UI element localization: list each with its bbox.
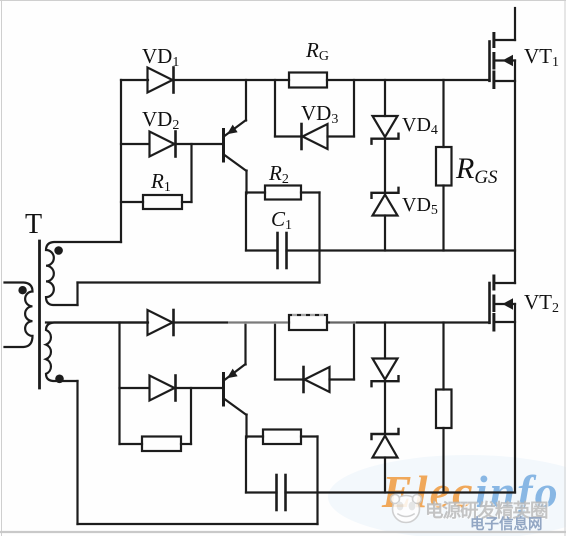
bottom secondary polarity dot: [55, 375, 64, 384]
wire: top secondary upper terminal riser: [120, 80, 122, 242]
wire: RGSb top drop: [442, 323, 444, 390]
capacitor C1: [278, 233, 287, 268]
wire: top source rail C1 to VT1 source: [287, 249, 516, 251]
wire: bottom transformer return: [78, 381, 318, 524]
resistor R1b: [142, 437, 181, 452]
diode VD2: [150, 132, 176, 157]
svg-text:VD1: VD1: [142, 44, 179, 70]
svg-text:VT1: VT1: [524, 44, 559, 70]
wire: VD4 to VD5 link: [384, 139, 386, 193]
transistor Q1 (PNP driver, top): [224, 80, 247, 194]
transformer T core: [38, 241, 41, 388]
zener diode VD4 (cathode down): [372, 116, 399, 144]
resistor RGSb: [436, 390, 452, 429]
resistor R2b: [263, 430, 301, 445]
resistor RG: [289, 73, 327, 88]
wire: top transformer return: [78, 283, 320, 306]
wire: VD3 left tap: [275, 80, 302, 137]
LABEL-LAYER: [25, 38, 559, 316]
wire: VD3 right tap: [328, 80, 355, 137]
wire: VD4 branch upper: [384, 80, 386, 116]
svg-text:RG: RG: [305, 38, 329, 64]
wire: VD4b to VD5b link: [384, 381, 386, 434]
svg-text:VT2: VT2: [524, 290, 559, 316]
wire: VD4b branch upper: [384, 323, 386, 359]
transformer bottom secondary winding: [46, 323, 147, 382]
svg-text:C1: C1: [271, 207, 292, 233]
wire: VD3b right tap: [330, 323, 355, 380]
wire: lower main bus RGb to VT2 gate: [327, 321, 490, 323]
wire: R1b right connection and riser: [181, 388, 191, 444]
wire: C1b left drop: [246, 437, 277, 493]
wire: R2b right drop to bottom return: [316, 437, 318, 525]
wire: VD2b cathode to Q2 base: [176, 387, 223, 389]
resistor R2: [265, 186, 301, 200]
wire: top main bus RG to VT1 gate: [327, 79, 490, 81]
capacitor C1b: [277, 475, 286, 510]
MOSFET VT2: [490, 276, 516, 330]
wire: RGS bottom drop to source rail: [442, 186, 444, 251]
wire: bottom secondary upper terminal to VD1b: [46, 321, 148, 323]
wire: RGS top drop: [442, 80, 444, 147]
svg-text:RGS: RGS: [455, 152, 498, 188]
wire: R2 left connection: [247, 191, 266, 193]
wire: VD3b left tap: [275, 323, 304, 380]
wire: top main bus VD1 to RG: [174, 79, 290, 81]
diode VD1: [148, 68, 174, 93]
wire: VT2 source vertical to bottom rail: [514, 304, 516, 493]
wire: VD2 cathode to Q1 base: [176, 143, 223, 145]
wire: R1 right connection and riser to VD2 row: [182, 144, 192, 202]
wire: VD2b branch: [120, 387, 150, 389]
svg-text:VD2: VD2: [142, 107, 179, 133]
wire: R2b right connection: [301, 435, 318, 437]
wire: lower left tap riser: [118, 323, 120, 445]
wire: VD5 anode to source rail: [384, 216, 386, 251]
zener diode VD5b (cathode up): [372, 429, 399, 458]
diode VD2b: [150, 376, 176, 401]
wire: lower main bus VD1b to RGb: [174, 321, 290, 323]
svg-text:电子信息网: 电子信息网: [470, 515, 543, 533]
transformer T primary winding: [5, 283, 33, 348]
diode VD1b (lower channel, inline): [148, 310, 174, 335]
transformer top secondary winding: [46, 242, 121, 305]
WATERMARK-LAYER: [328, 455, 566, 536]
wire: R1b left connection: [120, 443, 143, 445]
wire: VD5b anode to bottom rail: [384, 458, 386, 493]
svg-text:T: T: [25, 209, 42, 240]
resistor R1: [143, 195, 182, 209]
wire: VD2 branch from left riser: [121, 143, 149, 145]
svg-text:VD5: VD5: [402, 194, 438, 218]
svg-text:VD4: VD4: [402, 114, 438, 138]
wire: RGSb bottom drop: [442, 428, 444, 493]
svg-text:VD3: VD3: [301, 101, 338, 127]
svg-text:R1: R1: [150, 169, 171, 195]
zener diode VD5 (cathode up): [372, 188, 399, 216]
zener diode VD4b (cathode down): [372, 359, 399, 387]
wire: bottom source rail C1b to VT2 source: [286, 491, 516, 493]
wire: R2 right connection: [301, 191, 320, 193]
transistor Q2 (PNP driver, bottom): [224, 323, 247, 438]
wire: R2 right drop to transformer return: [318, 193, 320, 283]
wire: VT1 source / VT2 drain vertical: [514, 61, 516, 284]
top secondary polarity dot: [54, 246, 63, 255]
resistor RGS: [436, 147, 452, 186]
wire: C1 left drop from Q1 collector node: [246, 193, 278, 251]
watermark fade over lower bus wires: [228, 314, 356, 324]
transformer primary polarity dot: [18, 286, 26, 294]
diode VD3 (anti-parallel across RG, cathode left): [302, 124, 328, 149]
resistor RGb (lower gate resistor): [289, 315, 327, 330]
MOSFET VT1: [490, 8, 516, 88]
wire: R2b left connection: [247, 435, 264, 437]
wire: top main gate bus left of VD1: [121, 79, 148, 81]
wire: R1 left connection: [121, 201, 143, 203]
diode VD3b (cathode left): [304, 367, 330, 392]
svg-text:R2: R2: [268, 161, 289, 187]
